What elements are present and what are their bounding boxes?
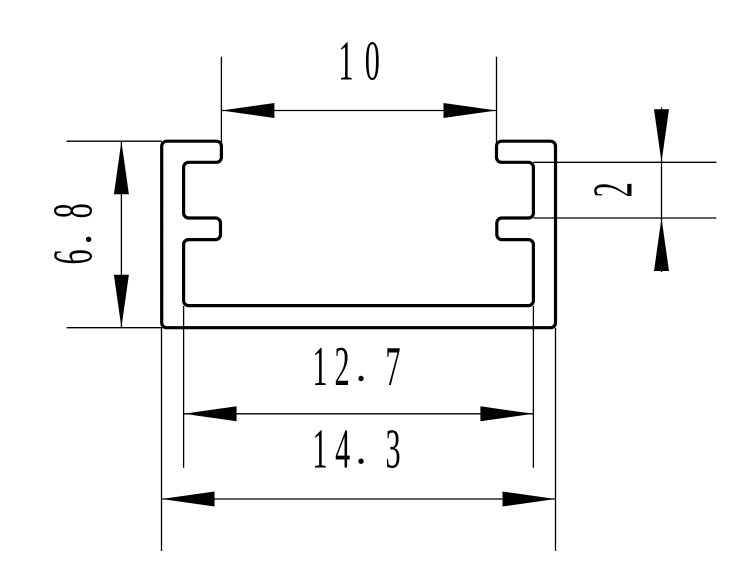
svg-text:3: 3	[385, 418, 400, 480]
svg-text:1: 1	[338, 30, 353, 92]
svg-text:4: 4	[335, 418, 350, 480]
svg-text:0: 0	[365, 30, 380, 92]
svg-text:1: 1	[312, 335, 327, 397]
svg-text:6: 6	[42, 249, 104, 264]
svg-text:2: 2	[334, 335, 349, 397]
svg-text:1: 1	[312, 418, 327, 480]
svg-text:2: 2	[582, 182, 644, 197]
svg-text:8: 8	[42, 203, 104, 218]
svg-text:7: 7	[385, 335, 400, 397]
